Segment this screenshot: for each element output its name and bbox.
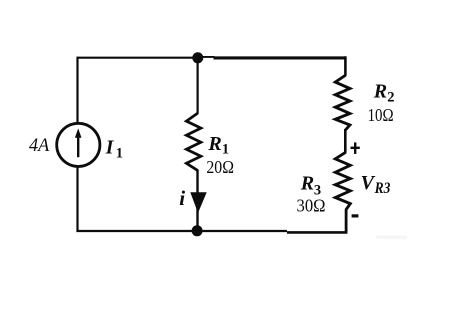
- svg-text:R: R: [373, 81, 387, 103]
- plus sign: [351, 142, 360, 154]
- label I1: [105, 137, 123, 161]
- wire left lower: [76, 166, 78, 231]
- wire bottom-left: [76, 230, 287, 232]
- svg-text:2: 2: [387, 89, 394, 105]
- node B bottom junction: [192, 225, 203, 236]
- svg-text:i: i: [179, 186, 185, 210]
- svg-text:10Ω: 10Ω: [368, 105, 394, 125]
- node A top junction: [192, 52, 203, 63]
- minus sign: [352, 214, 359, 217]
- svg-text:1: 1: [222, 142, 229, 158]
- resistor R2: [335, 75, 350, 130]
- current source I1: [57, 123, 100, 166]
- label R2: [373, 81, 395, 106]
- wire right middle: [344, 129, 347, 153]
- current arrow i: [190, 192, 206, 213]
- wire middle upper: [197, 58, 199, 114]
- svg-text:R: R: [300, 172, 314, 194]
- svg-text:V: V: [361, 172, 376, 194]
- wire left upper: [76, 57, 78, 123]
- svg-text:R: R: [207, 133, 221, 155]
- svg-text:R3: R3: [374, 180, 391, 197]
- label VR3: [361, 172, 391, 197]
- wire top-right: [214, 56, 346, 59]
- resistor R3: [335, 152, 350, 210]
- svg-text:20Ω: 20Ω: [206, 157, 234, 177]
- label R1: [207, 133, 229, 158]
- svg-text:1: 1: [116, 146, 123, 162]
- wire right lower: [345, 209, 348, 232]
- wire middle lower: [196, 170, 198, 231]
- wire top-right thin stub: [198, 56, 215, 58]
- label R3: [300, 172, 321, 198]
- resistor R1: [186, 113, 201, 170]
- wire right upper: [344, 56, 347, 76]
- svg-text:I: I: [105, 137, 115, 158]
- wire top-left: [78, 57, 199, 59]
- wire bottom-right: [287, 231, 347, 234]
- svg-text:30Ω: 30Ω: [297, 195, 326, 215]
- svg-text:4A: 4A: [29, 135, 50, 156]
